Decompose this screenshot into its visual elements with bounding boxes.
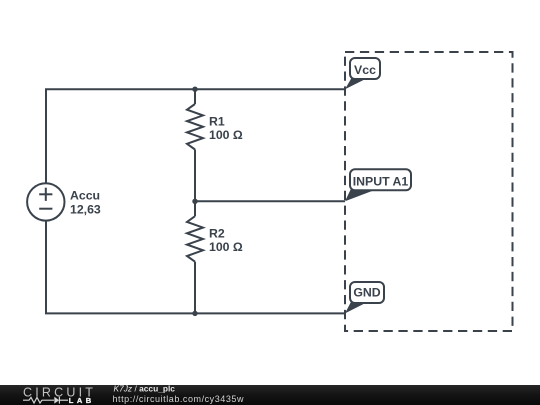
svg-text:100 Ω: 100 Ω (209, 128, 243, 142)
flag Vcc (345, 58, 380, 89)
svg-text:K7Jz / accu_plc: K7Jz / accu_plc (114, 384, 176, 394)
svg-text:12,63: 12,63 (70, 202, 101, 216)
svg-text:http://circuitlab.com/cy3435w: http://circuitlab.com/cy3435w (113, 394, 245, 404)
logo resistor-diode glyph (23, 397, 68, 404)
label: R1 100 Ω (209, 114, 243, 142)
wire: middle net INPUT A1 (195, 200, 345, 202)
svg-text:Accu: Accu (70, 188, 100, 202)
svg-text:R2: R2 (209, 227, 225, 241)
dashed enclosure box (345, 52, 513, 331)
junction node at middle (R1 / R2 / INPUT A1) (192, 199, 197, 204)
svg-text:LAB: LAB (69, 396, 95, 405)
flag GND (345, 282, 384, 313)
junction node at bottom (GND / R2) (192, 311, 197, 316)
junction node at top (Vcc / R1) (192, 87, 197, 92)
svg-text:INPUT A1: INPUT A1 (353, 174, 409, 188)
label: R2 100 Ω (209, 227, 243, 255)
flag INPUT A1 (345, 169, 411, 201)
resistor R2 (187, 201, 203, 313)
voltage source V1 (Accu) (27, 183, 64, 220)
svg-text:R1: R1 (209, 114, 225, 128)
wire: bottom net GND (46, 221, 345, 314)
svg-text:Vcc: Vcc (354, 63, 376, 77)
svg-text:100 Ω: 100 Ω (209, 240, 243, 254)
wire: top net Vcc (46, 89, 345, 183)
resistor R1 (187, 89, 203, 201)
svg-text:GND: GND (353, 285, 380, 299)
label: Accu 12,63 (70, 188, 101, 216)
